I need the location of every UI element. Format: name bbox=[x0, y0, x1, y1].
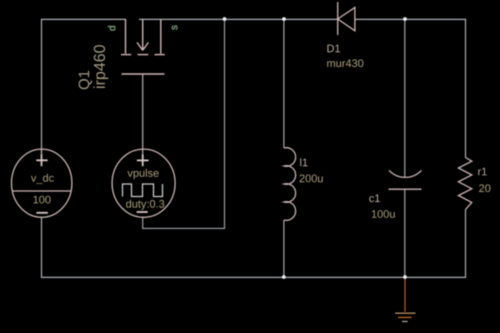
ground bar 1 bbox=[395, 312, 416, 314]
ground wire (orange) bbox=[404, 277, 406, 312]
label D1 bbox=[327, 45, 340, 53]
wire capacitor branch top bbox=[404, 19, 406, 177]
label v_dc bbox=[31, 174, 54, 184]
resistor r1 zigzag bbox=[458, 158, 471, 210]
vpulse square-wave glyph bbox=[123, 184, 163, 197]
node junction dot (vpulse return / source rail) bbox=[223, 17, 227, 21]
wire top rail left segment (v_dc+ to Q1 drain) bbox=[42, 19, 126, 149]
label vpulse bbox=[127, 169, 158, 179]
v_dc internal divider line bbox=[12, 190, 71, 192]
label Q1 bbox=[79, 71, 92, 90]
transistor Q1 (irp460 power MOSFET, rotated) bbox=[121, 19, 165, 74]
wire bottom rail bbox=[42, 210, 466, 278]
diode D1 bbox=[338, 2, 355, 35]
node junction dot (capacitor top) bbox=[403, 17, 407, 21]
body arrow bbox=[142, 19, 144, 50]
v_dc minus sign bbox=[36, 212, 48, 214]
source V2 vpulse circle bbox=[112, 149, 175, 217]
label 100u bbox=[372, 210, 395, 218]
triangle bbox=[338, 8, 355, 31]
wire capacitor branch bottom bbox=[404, 189, 406, 277]
v_dc plus vertical bbox=[41, 155, 43, 167]
label 20 bbox=[479, 184, 490, 192]
cathode bar bbox=[337, 2, 339, 35]
v_dc plus sign bbox=[36, 159, 47, 161]
source V1 v_dc circle bbox=[12, 149, 72, 217]
gate bar bbox=[122, 73, 165, 75]
source lead bbox=[160, 19, 162, 54]
v_dc plus lead bbox=[41, 149, 43, 166]
wire inductor branch bottom bbox=[283, 220, 285, 277]
vpulse plus vertical bbox=[142, 155, 144, 167]
label 200u bbox=[300, 175, 323, 183]
wire inductor branch top bbox=[283, 19, 285, 148]
label 100 bbox=[33, 196, 50, 204]
capacitor c1 curved plate bbox=[389, 170, 422, 177]
node junction dot (ground node) bbox=[403, 275, 407, 279]
wire gate lead to vpulse bbox=[142, 74, 144, 166]
drain lead bbox=[125, 19, 127, 54]
label s (source pin) bbox=[172, 25, 177, 29]
wire top rail right segment (diode anode to top-right corner) bbox=[355, 19, 466, 157]
label duty:0.3 bbox=[126, 200, 164, 210]
capacitor c1 flat plate bbox=[388, 188, 421, 190]
node junction dot (inductor top) bbox=[282, 17, 286, 21]
label mur430 bbox=[327, 59, 363, 67]
ground bar 3 bbox=[402, 321, 408, 323]
inductor l1 coil bbox=[284, 148, 296, 221]
node junction dot (inductor bottom) bbox=[282, 275, 286, 279]
label d (drain pin) bbox=[108, 26, 115, 31]
label irp460 bbox=[93, 45, 108, 88]
wire top rail source segment (Q1 source to diode cathode) bbox=[139, 18, 337, 20]
vpulse plus sign bbox=[137, 159, 149, 161]
ground bar 2 bbox=[398, 316, 412, 318]
label r1 bbox=[478, 168, 487, 176]
label l1 bbox=[300, 158, 307, 166]
vpulse minus sign bbox=[137, 211, 148, 213]
wire vpulse return (bottom of vpulse right then up to source rail) bbox=[143, 19, 225, 228]
channel dashes bbox=[121, 54, 131, 56]
label c1 bbox=[369, 194, 380, 202]
